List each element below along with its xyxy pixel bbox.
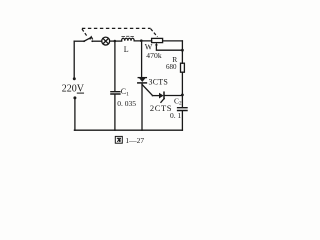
capacitor C2 plates: [178, 108, 187, 111]
svg-text:C1: C1: [121, 87, 129, 97]
svg-text:0. 035: 0. 035: [117, 99, 136, 108]
svg-text:2CTS: 2CTS: [150, 103, 172, 113]
switch S: [83, 37, 93, 42]
wire C2 to bottom rail: [181, 111, 183, 130]
caption figure number: [115, 136, 144, 145]
svg-text:470k: 470k: [146, 51, 162, 60]
lamp EL: [102, 37, 110, 45]
wire 3CTS gate diagonal: [142, 85, 152, 96]
wire to 2CTS anode: [152, 95, 159, 97]
node junction thyristor branch: [140, 39, 143, 42]
wire switch to lamp: [92, 40, 101, 42]
inductor L: [122, 38, 135, 41]
trigger diode 2CTS: [159, 92, 164, 102]
potentiometer W wiper arrow: [155, 43, 158, 46]
svg-text:680: 680: [166, 63, 177, 71]
node upper supply terminal: [73, 77, 76, 80]
svg-text:C2: C2: [174, 96, 182, 106]
wire R to C2: [181, 72, 183, 107]
wire coil to pot: [134, 40, 151, 42]
wire top left horizontal: [74, 40, 83, 42]
node wiper junction: [181, 49, 184, 52]
wire left rail upper: [73, 41, 75, 78]
wire C1 branch upper: [114, 41, 116, 91]
wire 2CTS cathode to junction: [165, 95, 183, 97]
wire pot to right corner: [163, 40, 183, 42]
thyristor 3CTS: [138, 77, 147, 130]
svg-text:0. 1: 0. 1: [170, 111, 182, 120]
svg-text:L: L: [124, 45, 129, 54]
node lower supply terminal: [73, 96, 76, 99]
svg-text:220V: 220V: [62, 84, 85, 95]
node gate network junction: [181, 94, 184, 97]
wire right branch upper: [181, 41, 183, 63]
svg-text:W: W: [145, 42, 153, 51]
node junction C1 top: [114, 40, 117, 43]
svg-text:3CTS: 3CTS: [149, 78, 168, 87]
wire C1 to bottom rail: [114, 94, 116, 130]
wire thyristor branch upper: [141, 41, 143, 78]
dashed mechanical linkage: [82, 28, 158, 37]
wire left rail lower: [74, 99, 76, 131]
wire lamp to node: [110, 40, 122, 42]
capacitor C1 plates: [111, 92, 120, 94]
svg-text:1—27: 1—27: [125, 136, 144, 145]
wire bottom rail: [74, 129, 182, 131]
resistor R body: [181, 63, 185, 72]
wire wiper lead: [156, 45, 182, 50]
potentiometer W body: [152, 38, 163, 42]
